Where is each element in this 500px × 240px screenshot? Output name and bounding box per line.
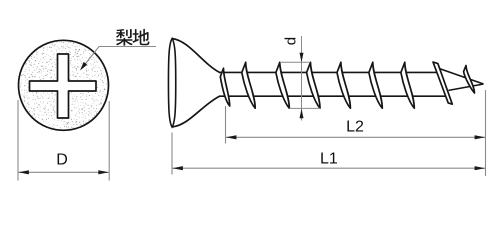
svg-text:d: d	[282, 37, 299, 45]
svg-text:L1: L1	[320, 151, 338, 168]
svg-text:D: D	[56, 151, 68, 168]
svg-text:L2: L2	[346, 119, 364, 136]
